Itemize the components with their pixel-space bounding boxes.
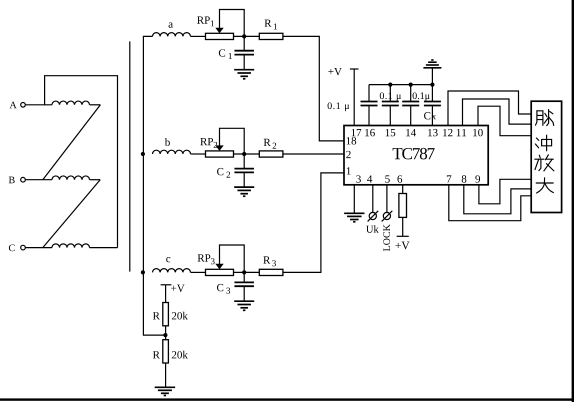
resistor R1 (259, 33, 283, 39)
ground below C2 (234, 187, 254, 196)
pin 12 label (443, 129, 452, 136)
pin 18 label (347, 137, 357, 144)
ground above capacitor bus (423, 60, 441, 68)
resistor R2 label (264, 139, 271, 146)
wire RP2 to node (234, 153, 260, 155)
+V label below pin 6 (395, 242, 409, 250)
pin 8 label (462, 175, 467, 182)
IC label TC787 (393, 148, 435, 159)
resistor R upper 20k label (153, 312, 160, 319)
test point circle pin 5 (LOCK) (383, 212, 390, 219)
decoupling capacitor on pin 15 (382, 102, 399, 106)
wire pin 8 to pulse amplifier (464, 185, 531, 214)
transformer secondary winding b (153, 150, 191, 154)
LOCK label (rotated) (383, 224, 390, 251)
wire pin 12 to pulse amplifier (448, 91, 531, 126)
wire channel b to pin 2 (283, 153, 344, 155)
pin 5 label (385, 175, 389, 182)
terminal A label (10, 102, 17, 109)
transformer primary winding C (52, 244, 90, 248)
wire pin 14 to decoupling capacitor (410, 106, 412, 126)
pin 13 label (428, 129, 438, 136)
decoupling capacitor on pin 14 (402, 102, 419, 106)
wire pin 16 to decoupling capacitor (368, 106, 370, 126)
transformer secondary winding c (153, 269, 191, 273)
page border right edge (572, 0, 574, 402)
winding a label (169, 22, 173, 27)
potentiometer RP1 label (197, 17, 210, 24)
wire RP3 to node (234, 271, 260, 273)
junction node channel c (242, 270, 246, 274)
capacitor C2 label (217, 168, 223, 175)
+V terminal tick pin 6 (397, 235, 409, 237)
pulse amplifier label fang (CJK stroke drawing) (535, 155, 554, 171)
transformer primary winding A (52, 101, 90, 105)
winding b label (165, 138, 170, 146)
decoupling capacitor on pin 16 (361, 102, 378, 106)
wire terminal A to winding (25, 104, 52, 106)
wire pin 3 to ground (353, 185, 355, 214)
IC U1 TC787 body (344, 126, 488, 185)
wire upper R to midpoint (165, 326, 167, 340)
resistor on pin 6 (399, 194, 407, 218)
capacitor C1 label (219, 49, 225, 56)
pulse amplifier label chong (CJK stroke drawing) (535, 135, 551, 151)
pin 4 label (367, 175, 372, 182)
terminal C circle (21, 245, 26, 250)
page border bottom edge (0, 398, 574, 400)
wire pin 13 to decoupling capacitor (431, 106, 433, 126)
wire pin 6 to resistor (402, 185, 404, 194)
junction bus to divider midpoint (163, 333, 167, 337)
junction node channel b (242, 152, 246, 156)
capacitor C2 (243, 154, 245, 169)
ground below C3 (234, 301, 254, 310)
winding c label (166, 257, 170, 262)
wire terminal C to winding (25, 247, 52, 249)
+V terminal tick pin 17 (350, 68, 359, 70)
resistor R lower 20k (163, 340, 169, 363)
wire channel c to pin 1 (283, 173, 344, 273)
capacitor C3 (243, 272, 245, 282)
capacitor C3 label (217, 284, 223, 291)
pulse amplifier block (531, 101, 561, 212)
wire pin 7 to pulse amplifier (449, 185, 531, 221)
junction cap bus 15 (388, 83, 392, 87)
junction node channel a (242, 34, 246, 38)
Uk label (366, 225, 379, 232)
ground below C1 (234, 70, 254, 79)
wire pin 15 to decoupling capacitor (389, 106, 391, 126)
wire pin 17 to +V (353, 69, 355, 126)
wire RP1 to node (234, 35, 260, 37)
wire pin 10 to pulse amplifier (478, 106, 531, 136)
junction secondary bus / winding c (141, 270, 145, 274)
wire pin 5 (386, 185, 388, 213)
transformer secondary winding a (153, 33, 191, 37)
pin 15 label (386, 129, 396, 136)
wire lower R to ground (165, 363, 167, 387)
capacitor C1 (243, 36, 245, 50)
ground below divider (155, 387, 176, 395)
wire delta link B end to C start (43, 180, 100, 248)
test point circle pin 4 (Uk) (369, 212, 376, 219)
wire resistor to +V (402, 217, 404, 236)
potentiometer RP2 label (200, 138, 213, 145)
wire capacitor ground bus (369, 84, 432, 86)
pin 7 label (447, 175, 451, 182)
pin 16 label (365, 129, 375, 136)
potentiometer RP3 (206, 269, 234, 275)
capacitor value label 0.1u (pin14) (413, 92, 430, 101)
transformer primary winding B (52, 176, 90, 180)
pin 9 label (475, 175, 480, 182)
resistor R3 (259, 269, 283, 275)
potentiometer RP1 (206, 33, 234, 39)
resistor R3 label (263, 256, 270, 263)
wire channel a to pin 18 (283, 36, 344, 140)
pin 17 label (352, 129, 362, 136)
junction cap bus 13 (430, 83, 434, 87)
resistor R2 (259, 151, 283, 157)
wire pin 11 to pulse amplifier (463, 99, 532, 126)
ground at pin 3 (344, 213, 364, 222)
pin 1 label (347, 167, 351, 174)
terminal A circle (21, 103, 26, 108)
+V terminal at divider (161, 284, 172, 286)
transformer core line (129, 41, 131, 271)
wire pin 4 (372, 185, 374, 213)
capacitor Cx label (424, 112, 430, 119)
decoupling capacitor on pin 13 (424, 102, 441, 106)
wire terminal B to winding (25, 179, 52, 181)
junction secondary bus / winding b (141, 152, 145, 156)
resistor R lower 20k label (153, 351, 160, 358)
pulse amplifier label da (CJK stroke drawing) (536, 178, 553, 193)
terminal C label (9, 244, 15, 251)
+V supply label at pin 17 (328, 68, 341, 75)
capacitor value label 0.1u (pin15) (380, 92, 401, 101)
potentiometer RP2 (206, 151, 234, 157)
pin 10 label (473, 129, 483, 136)
wire delta top rail (A start to C end) (45, 76, 118, 248)
wire pin 9 to pulse amplifier (479, 179, 531, 204)
resistor R upper 20k (163, 303, 169, 326)
pulse amplifier label mai (CJK stroke drawing) (536, 110, 554, 126)
terminal B circle (21, 177, 26, 182)
pin 14 label (406, 129, 416, 136)
terminal B label (9, 177, 15, 184)
resistor R1 label (265, 20, 272, 27)
wire secondary common bus (143, 36, 165, 335)
wire bus to top ground (431, 68, 433, 85)
potentiometer RP3 label (198, 254, 211, 261)
capacitor value label 0.1u (pin16) (328, 102, 350, 111)
pin 2 label (346, 151, 350, 158)
pin 11 label (457, 129, 466, 136)
pin 6 label (397, 175, 402, 182)
pin 3 label (356, 175, 361, 182)
junction cap bus 14 (409, 83, 413, 87)
wire delta link A end to B start (43, 105, 101, 180)
